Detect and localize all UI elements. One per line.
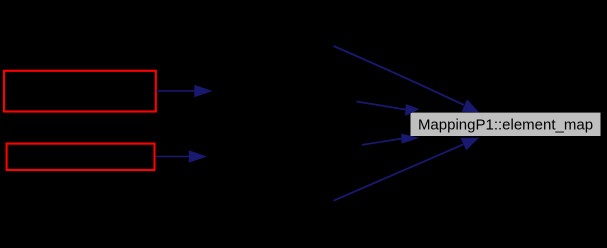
edge A (top node to element_map) [334,46,478,112]
edge B (middle node to element_map) [357,102,419,116]
node caller 2 (red truncated box) [7,144,155,170]
edge from caller 2 [156,151,206,162]
edge from caller 1 [156,86,211,97]
node caller 1 (red truncated box) [4,71,156,112]
edge C (middle node to element_map) [362,134,417,145]
node MappingP1::element_map (current node, gray) [411,113,601,136]
svg-text:MappingP1::element_map: MappingP1::element_map [418,117,593,134]
edge D (bottom node to element_map) [334,138,478,201]
